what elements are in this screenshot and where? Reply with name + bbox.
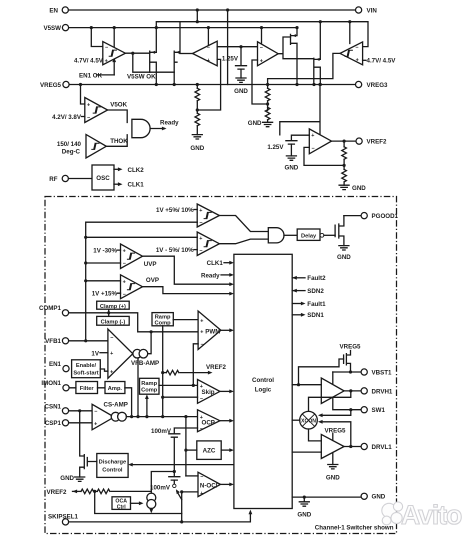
svg-text:VREF2: VREF2: [367, 139, 388, 146]
wire driver top VREG5: [332, 434, 334, 441]
svg-text:−: −: [201, 342, 204, 348]
wire Skip minus: [163, 396, 198, 398]
wire AND to Delay: [284, 234, 297, 236]
svg-text:+: +: [123, 279, 126, 285]
svg-text:−: −: [260, 45, 263, 51]
node on EN/VIN wire: [196, 8, 199, 11]
svg-text:GND: GND: [190, 145, 204, 152]
Clamp(-) box: [97, 316, 130, 325]
svg-text:−: −: [200, 475, 203, 481]
svg-text:Deg-C: Deg-C: [62, 149, 81, 156]
svg-text:Channel-1 Switcher shown: Channel-1 Switcher shown: [315, 525, 394, 532]
svg-text:Logic: Logic: [255, 387, 272, 394]
svg-text:Amp.: Amp.: [108, 386, 123, 392]
svg-text:+: +: [200, 491, 203, 497]
svg-text:Delay: Delay: [301, 233, 317, 239]
switch blade: [177, 491, 182, 499]
svg-text:GND: GND: [297, 511, 311, 518]
wire GND pin line: [292, 496, 361, 498]
op-amp CS-AMP: [92, 404, 114, 430]
svg-text:SKIPSEL1: SKIPSEL1: [48, 513, 78, 520]
comparator N-OCP: [198, 472, 220, 496]
svg-text:CSN1: CSN1: [44, 403, 61, 410]
resistor divider VREG5: [196, 85, 198, 89]
wire XCON sense DRVL: [322, 422, 351, 447]
current source CS-AMP output: [111, 412, 120, 421]
comparator OVP: [121, 275, 143, 299]
wire soft-start to amp: [100, 369, 108, 371]
wire PG-high output to AND: [219, 216, 268, 232]
svg-text:RF: RF: [49, 176, 57, 183]
comparator PG-high 1V+5%/10%: [197, 204, 219, 227]
svg-text:+: +: [87, 103, 90, 109]
pin DRVL1: [361, 443, 367, 449]
Discharge Control box: [97, 454, 128, 478]
svg-text:OSC: OSC: [96, 175, 110, 182]
comparator THOK: [86, 135, 106, 159]
Ramp Comp box 1: [152, 313, 173, 326]
wire driver bottom to SW1: [333, 397, 361, 410]
battery 1.25V for VREF2: [291, 135, 309, 140]
svg-text:VREF2: VREF2: [47, 489, 68, 496]
svg-text:−: −: [200, 396, 203, 402]
pin DRVH1: [361, 388, 367, 394]
svg-text:COMP1: COMP1: [39, 305, 62, 312]
svg-text:+: +: [199, 236, 202, 242]
wire UVP output: [143, 256, 231, 284]
wire PWM minus from ramp node: [193, 344, 198, 386]
pin VREF2: [356, 138, 362, 144]
comparator V5SW-OK (4.7V/4.5V): [103, 42, 126, 65]
svg-text:OVP: OVP: [146, 277, 159, 284]
svg-text:CS-AMP: CS-AMP: [104, 401, 128, 408]
resistor divider VREG3: [267, 85, 269, 89]
svg-text:GND: GND: [248, 120, 262, 127]
wire Fault1: [292, 303, 301, 305]
wire driver top to VBST: [332, 372, 334, 384]
svg-text:+: +: [200, 318, 203, 324]
svg-text:−: −: [110, 336, 113, 342]
svg-text:100mV: 100mV: [151, 428, 172, 435]
svg-text:GND: GND: [60, 475, 74, 482]
wire V5SW rail: [69, 27, 297, 29]
svg-text:+: +: [105, 59, 108, 65]
wire VFB-AMP mirror down: [137, 358, 139, 417]
svg-text:Comp: Comp: [141, 388, 158, 394]
svg-text:Control: Control: [252, 377, 274, 384]
wire VFB-AMP out up: [148, 332, 151, 354]
svg-text:VREG5: VREG5: [40, 82, 62, 89]
wire PGOOD1: [344, 215, 361, 217]
svg-text:VREG5: VREG5: [340, 343, 362, 350]
wire Delay to Q5 gate with bubble: [320, 233, 324, 237]
wire Q7 gate: [299, 359, 344, 385]
wire XCON left: [292, 419, 300, 421]
pin IMON1: [63, 385, 69, 391]
wire VFB bus: [86, 222, 198, 341]
svg-text:Ramp: Ramp: [155, 314, 171, 320]
svg-text:150/ 140: 150/ 140: [57, 141, 82, 148]
wire Amp out down: [125, 388, 132, 417]
comparator VREG5-OK 4.7V/4.5V right: [340, 42, 363, 65]
comparator PWM: [198, 311, 221, 350]
ground divider VREF2: [339, 185, 349, 189]
svg-text:CLK1: CLK1: [207, 260, 224, 267]
wire ramp1 out to PWM: [173, 319, 198, 321]
svg-text:V5SW: V5SW: [43, 25, 61, 32]
Delay box: [297, 229, 320, 240]
switch contact: [173, 484, 176, 487]
wire PG-low output to AND: [219, 239, 268, 244]
svg-text:CLK1: CLK1: [128, 182, 145, 189]
pin VFB1: [62, 338, 68, 344]
svg-text:Control: Control: [102, 467, 123, 473]
wire DRVL1 out: [344, 446, 361, 448]
svg-text:Fault2: Fault2: [307, 275, 326, 282]
wire CS output line: [126, 416, 197, 418]
wire DRVL input: [292, 451, 321, 453]
svg-text:−: −: [123, 292, 126, 298]
svg-text:Ramp: Ramp: [141, 381, 157, 387]
svg-text:+: +: [200, 329, 203, 335]
pin SW1: [361, 407, 367, 413]
wire vertical feed AZC/N-OCP: [185, 417, 187, 476]
pin EN1: [63, 366, 69, 372]
wire Q2 gate from amp: [180, 53, 193, 55]
wire ramp2 input arrow: [146, 398, 148, 417]
svg-text:GND: GND: [337, 254, 351, 261]
svg-text:EN1: EN1: [49, 361, 62, 368]
svg-text:Clamp (-): Clamp (-): [101, 319, 126, 325]
svg-text:DRVL1: DRVL1: [372, 444, 393, 451]
ground divider VREG5: [192, 135, 202, 139]
svg-text:DRVH1: DRVH1: [372, 388, 393, 395]
comparator UVP: [121, 244, 143, 269]
wire N-OCP plus: [182, 492, 198, 522]
current source OCA: [147, 493, 156, 502]
svg-text:CLK2: CLK2: [128, 167, 145, 174]
svg-text:−: −: [87, 115, 90, 121]
svg-text:PGOOD1: PGOOD1: [372, 213, 399, 220]
transistor Q2 switchover: [174, 22, 180, 85]
svg-text:OCP: OCP: [202, 419, 215, 426]
svg-text:1.25V: 1.25V: [267, 144, 284, 151]
wire CSN1: [69, 410, 92, 412]
wire EN to VIN rail: [69, 9, 356, 11]
svg-text:−: −: [207, 45, 210, 51]
svg-text:UVP: UVP: [144, 261, 157, 268]
svg-text:VFB-AMP: VFB-AMP: [131, 360, 159, 367]
svg-text:−: −: [123, 261, 126, 267]
wire source top to battery node: [151, 472, 174, 494]
svg-text:4.7V/ 4.5V: 4.7V/ 4.5V: [74, 57, 104, 64]
watermark avito logo: [382, 502, 403, 525]
battery 1.25V ref top: [240, 47, 242, 66]
transistor Q5 PGOOD: [335, 216, 344, 246]
svg-text:4.2V/ 3.8V: 4.2V/ 3.8V: [52, 114, 82, 121]
wire CLK2 out: [114, 168, 120, 170]
Control Logic box: [234, 254, 292, 508]
svg-text:Discharge: Discharge: [99, 459, 127, 465]
wire Skip out: [220, 390, 230, 392]
wire rail to amp top: [207, 28, 209, 45]
svg-text:1.25V: 1.25V: [222, 55, 239, 62]
comparator Skip: [198, 380, 220, 404]
wire driver bottom to ground: [332, 453, 334, 465]
pin VREG5: [63, 81, 69, 87]
wire Fault2: [292, 276, 297, 280]
wire comparator output: [125, 53, 174, 72]
wire EN tap2 down long: [227, 10, 229, 85]
wire DRVH input: [292, 384, 321, 386]
wire LDO3 feedback from divider tap: [252, 60, 268, 104]
pin CSP1: [62, 420, 68, 426]
wire rail tap into comparator: [349, 22, 351, 44]
svg-text:−: −: [94, 409, 97, 415]
wire VREG5 to V5OK plus: [81, 85, 85, 105]
svg-text:100mV: 100mV: [150, 485, 171, 492]
svg-text:+: +: [311, 133, 314, 139]
svg-text:VBST1: VBST1: [372, 369, 393, 376]
svg-text:VREG3: VREG3: [367, 82, 389, 89]
svg-text:GND: GND: [372, 494, 386, 501]
wire VFB1 to amp: [69, 340, 108, 342]
transistor Q6 discharge: [80, 411, 97, 477]
svg-text:−: −: [200, 427, 203, 433]
wire SDN2: [292, 289, 297, 293]
wire discharge line: [132, 464, 234, 466]
wire AZC in: [186, 449, 197, 451]
wire ramp2 out to Skip: [159, 384, 198, 386]
svg-text:SW1: SW1: [372, 407, 386, 414]
current source VFB-AMP output: [133, 349, 142, 358]
svg-text:GND: GND: [326, 474, 340, 481]
Amp box: [105, 382, 125, 394]
AZC box: [197, 441, 221, 460]
label 4.7V/4.5V right: [363, 59, 366, 61]
svg-text:GND: GND: [352, 185, 366, 192]
ground under Q6: [75, 477, 85, 481]
pin PGOOD1: [361, 213, 367, 219]
pin SKIPSEL1: [62, 519, 68, 525]
svg-text:+: +: [94, 422, 97, 428]
ground under 1.25V: [236, 78, 246, 82]
svg-text:XCON: XCON: [301, 418, 316, 424]
wire N-OCP minus: [186, 475, 198, 477]
battery 100mV N-OCP: [173, 472, 175, 477]
svg-text:GND: GND: [285, 165, 299, 172]
svg-text:Ctrl: Ctrl: [117, 504, 126, 510]
svg-text:VREG5: VREG5: [325, 427, 347, 434]
Ramp Comp box 2: [140, 378, 160, 394]
svg-text:VFB1: VFB1: [45, 338, 61, 345]
wire CSP1: [69, 422, 92, 424]
svg-text:1V - 5%/ 10%: 1V - 5%/ 10%: [156, 247, 194, 254]
op-amp VFB-AMP: [108, 329, 133, 378]
OCA Ctrl box: [112, 497, 131, 510]
op-amp U-LDO3: [258, 42, 279, 66]
svg-text:1V -30%: 1V -30%: [93, 248, 117, 255]
svg-text:Ready: Ready: [201, 272, 220, 279]
wire N-OCP out: [220, 483, 229, 485]
svg-text:Ready: Ready: [160, 120, 179, 127]
Filter box: [76, 382, 98, 394]
wire VREF2 left arrow row: [73, 490, 78, 494]
svg-text:Avito: Avito: [401, 500, 462, 530]
transistor Q1 switchover: [150, 51, 157, 84]
wire Ready arrow: [150, 128, 164, 130]
AND gate Ready: [132, 119, 150, 137]
wire OCP minus to battery: [174, 428, 197, 433]
svg-text:EN: EN: [49, 7, 58, 14]
pin COMP1: [62, 310, 68, 316]
svg-text:PWM: PWM: [205, 328, 220, 335]
svg-text:CSP1: CSP1: [45, 420, 62, 427]
op-amp VREF2 buffer: [309, 129, 331, 154]
wire VREG5/VREG3 rail: [69, 84, 355, 86]
svg-text:−: −: [355, 45, 358, 51]
wire OCA arrow to source: [131, 502, 141, 504]
wire shared 1.25V to both amp inputs: [217, 46, 257, 48]
svg-text:+: +: [260, 58, 263, 64]
svg-text:EN1 OK: EN1 OK: [79, 72, 103, 79]
svg-text:GND: GND: [234, 88, 248, 95]
resistor divider VREF2 lower: [342, 169, 347, 182]
wire LDO3 out to Q3/Q4 gates: [278, 37, 314, 59]
wire CLK1 out: [114, 183, 120, 185]
comparator PG-low 1V-5%/10%: [197, 232, 219, 256]
wire THOK output: [106, 135, 127, 147]
op-amp U-LDO5: [193, 41, 218, 66]
OSC box: [92, 165, 114, 190]
svg-text:SDN2: SDN2: [307, 288, 324, 295]
svg-text:4.7V/ 4.5V: 4.7V/ 4.5V: [367, 58, 397, 65]
pin RF: [62, 175, 68, 181]
wire XCON top to DRVH node: [309, 391, 351, 412]
pin VIN: [356, 7, 362, 13]
comparator V5OK: [85, 98, 108, 123]
ground under VREF2 battery: [286, 156, 296, 160]
svg-text:V5OK: V5OK: [110, 101, 127, 108]
wire clamp taps: [108, 309, 110, 316]
wire V5OK output: [108, 110, 128, 123]
wire ramp1 down bus: [162, 326, 164, 417]
wire rail end down to Q1: [156, 22, 158, 53]
ground divider VREG3: [263, 122, 273, 126]
svg-text:+: +: [356, 58, 359, 64]
svg-text:V5SW OK: V5SW OK: [127, 74, 156, 81]
svg-text:+: +: [199, 208, 202, 214]
wire VREF2 mid arrow: [161, 371, 164, 374]
wire SDN1: [292, 314, 301, 316]
wire bus to PG-low: [86, 236, 198, 238]
svg-text:THOK: THOK: [110, 138, 128, 145]
svg-text:−: −: [199, 220, 202, 226]
wire EN tap down: [196, 10, 198, 22]
pin V5SW: [62, 25, 68, 31]
wire SKIPSEL1: [69, 512, 251, 522]
svg-text:Enable/: Enable/: [76, 363, 97, 369]
dashed border channel-1: [45, 197, 397, 534]
battery 100mV OCP: [169, 434, 180, 437]
svg-text:VIN: VIN: [367, 7, 378, 14]
ground under Q5: [339, 246, 349, 250]
resistor divider VREF2 upper: [343, 141, 345, 147]
wire comparator 4.7 output to VREG5 rail: [268, 53, 340, 84]
wire VREF2 output: [332, 140, 356, 142]
wire OCP out: [220, 420, 230, 422]
wire LDO5 feedback: [197, 59, 220, 110]
transistor Q3 LDO pass: [291, 28, 298, 85]
svg-text:+: +: [123, 249, 126, 255]
wire rail tap to comparator plus (EN1 OK net): [113, 28, 115, 75]
svg-text:N-OCP: N-OCP: [200, 483, 220, 490]
wire upper rail to 4.7V comparator: [158, 22, 368, 47]
wire OVP output: [143, 287, 231, 294]
svg-text:1V: 1V: [91, 350, 99, 357]
comparator OCP: [198, 410, 220, 432]
svg-text:Clamp (+): Clamp (+): [100, 304, 126, 310]
wire COMP1: [69, 313, 198, 332]
svg-text:−: −: [312, 146, 315, 152]
Clamp(+) box: [97, 301, 130, 309]
svg-text:1V +5%/ 10%: 1V +5%/ 10%: [156, 207, 194, 214]
XCON circle: [300, 411, 318, 429]
Enable/Soft-start box: [72, 360, 101, 378]
svg-text:−: −: [199, 248, 202, 254]
pin VREG3: [356, 81, 362, 87]
wire DRVH1 out: [344, 390, 361, 392]
svg-text:+: +: [110, 351, 113, 357]
svg-text:Filter: Filter: [80, 386, 95, 392]
AND gate PGOOD: [268, 228, 284, 243]
svg-text:IMON1: IMON1: [41, 380, 61, 387]
transistor Q7 boost switch: [344, 351, 351, 373]
pin EN: [62, 7, 68, 13]
pin CSN1: [62, 408, 68, 414]
wire PWM out: [221, 329, 230, 331]
wire RF to OSC: [69, 178, 93, 180]
svg-text:VREF2: VREF2: [206, 364, 227, 371]
svg-text:AZC: AZC: [203, 448, 216, 455]
wire XCON sense SW: [322, 410, 351, 416]
svg-text:SDN1: SDN1: [307, 312, 324, 319]
driver DRVL: [321, 434, 344, 458]
wire tap down and across: [95, 491, 182, 513]
wire AZC out: [221, 449, 229, 451]
svg-text:Fault1: Fault1: [307, 301, 326, 308]
svg-text:−: −: [105, 45, 108, 51]
wire VREF2 feedback loop: [304, 147, 344, 165]
pin GND: [361, 493, 367, 499]
wire V5SW tap to comparator minus: [91, 28, 103, 47]
driver DRVH: [321, 378, 344, 404]
svg-text:Soft-start: Soft-start: [73, 370, 98, 376]
wire VBST1: [333, 371, 361, 373]
wire op-amp VREF2 supply: [280, 85, 320, 135]
wire XCON to DRVL driver: [309, 429, 322, 441]
pin VBST1: [361, 369, 367, 375]
svg-text:Skip: Skip: [202, 389, 215, 396]
svg-text:+: +: [110, 370, 113, 376]
svg-text:1V +15%: 1V +15%: [92, 291, 118, 298]
svg-text:+: +: [207, 58, 210, 64]
transistor Q4 switch pass: [314, 22, 321, 85]
wire rail down into LDO3 amp: [261, 28, 263, 43]
